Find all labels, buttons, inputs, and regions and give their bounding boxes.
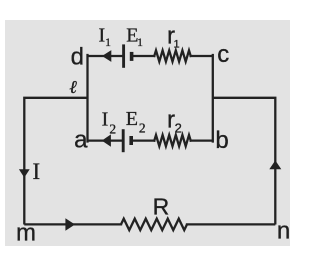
wire battery E1 to r1: [133, 55, 154, 57]
svg-text:I: I: [102, 109, 109, 131]
svg-text:1: 1: [137, 37, 143, 49]
svg-text:R: R: [153, 193, 170, 219]
label r2: [167, 107, 182, 136]
wire battery E2 to r2: [133, 139, 154, 141]
label E1: [126, 25, 143, 50]
wire b-c tap to n: [214, 98, 275, 224]
svg-text:b: b: [215, 127, 228, 154]
battery E2 short plate: [129, 136, 133, 145]
wire right inner vertical c-b: [212, 55, 214, 142]
current arrow I2 (points left): [102, 134, 111, 146]
current arrow I down on left wire: [19, 169, 30, 177]
battery E1 short plate: [130, 52, 134, 61]
svg-text:n: n: [277, 218, 290, 245]
current arrow up on right wire: [269, 160, 281, 169]
svg-text:2: 2: [139, 121, 146, 136]
svg-text:d: d: [71, 43, 84, 70]
wire r2 to b: [191, 139, 212, 141]
label E2: [126, 108, 146, 136]
current arrow right on bottom wire: [65, 218, 75, 230]
battery E2 long plate: [122, 129, 125, 152]
wire node l tap to m: [24, 98, 86, 224]
svg-text:I: I: [32, 159, 40, 184]
label I1: [98, 25, 111, 50]
wire m to resistor R: [25, 223, 121, 225]
svg-text:c: c: [217, 41, 229, 68]
resistor r1: [154, 50, 190, 61]
svg-text:1: 1: [174, 38, 180, 50]
resistor r2: [154, 135, 190, 146]
resistor R: [121, 219, 187, 230]
label r1: [167, 22, 180, 50]
battery E1 long plate: [122, 44, 125, 67]
svg-text:a: a: [74, 126, 88, 153]
wire a to battery E2: [89, 139, 123, 141]
svg-text:m: m: [16, 219, 36, 246]
svg-text:2: 2: [109, 122, 116, 137]
current arrow I1 (points left): [102, 50, 111, 62]
label I2: [102, 109, 117, 137]
wire left inner vertical d-l-a: [86, 55, 88, 142]
wire resistor R to n: [187, 223, 274, 225]
svg-text:I: I: [98, 25, 105, 47]
panel background: [5, 20, 290, 246]
wire d to battery E1: [89, 55, 123, 57]
svg-text:2: 2: [175, 121, 182, 136]
wire r1 to c: [191, 55, 212, 57]
svg-text:E: E: [126, 108, 138, 130]
svg-text:1: 1: [105, 37, 111, 49]
svg-text:ℓ: ℓ: [69, 77, 77, 97]
